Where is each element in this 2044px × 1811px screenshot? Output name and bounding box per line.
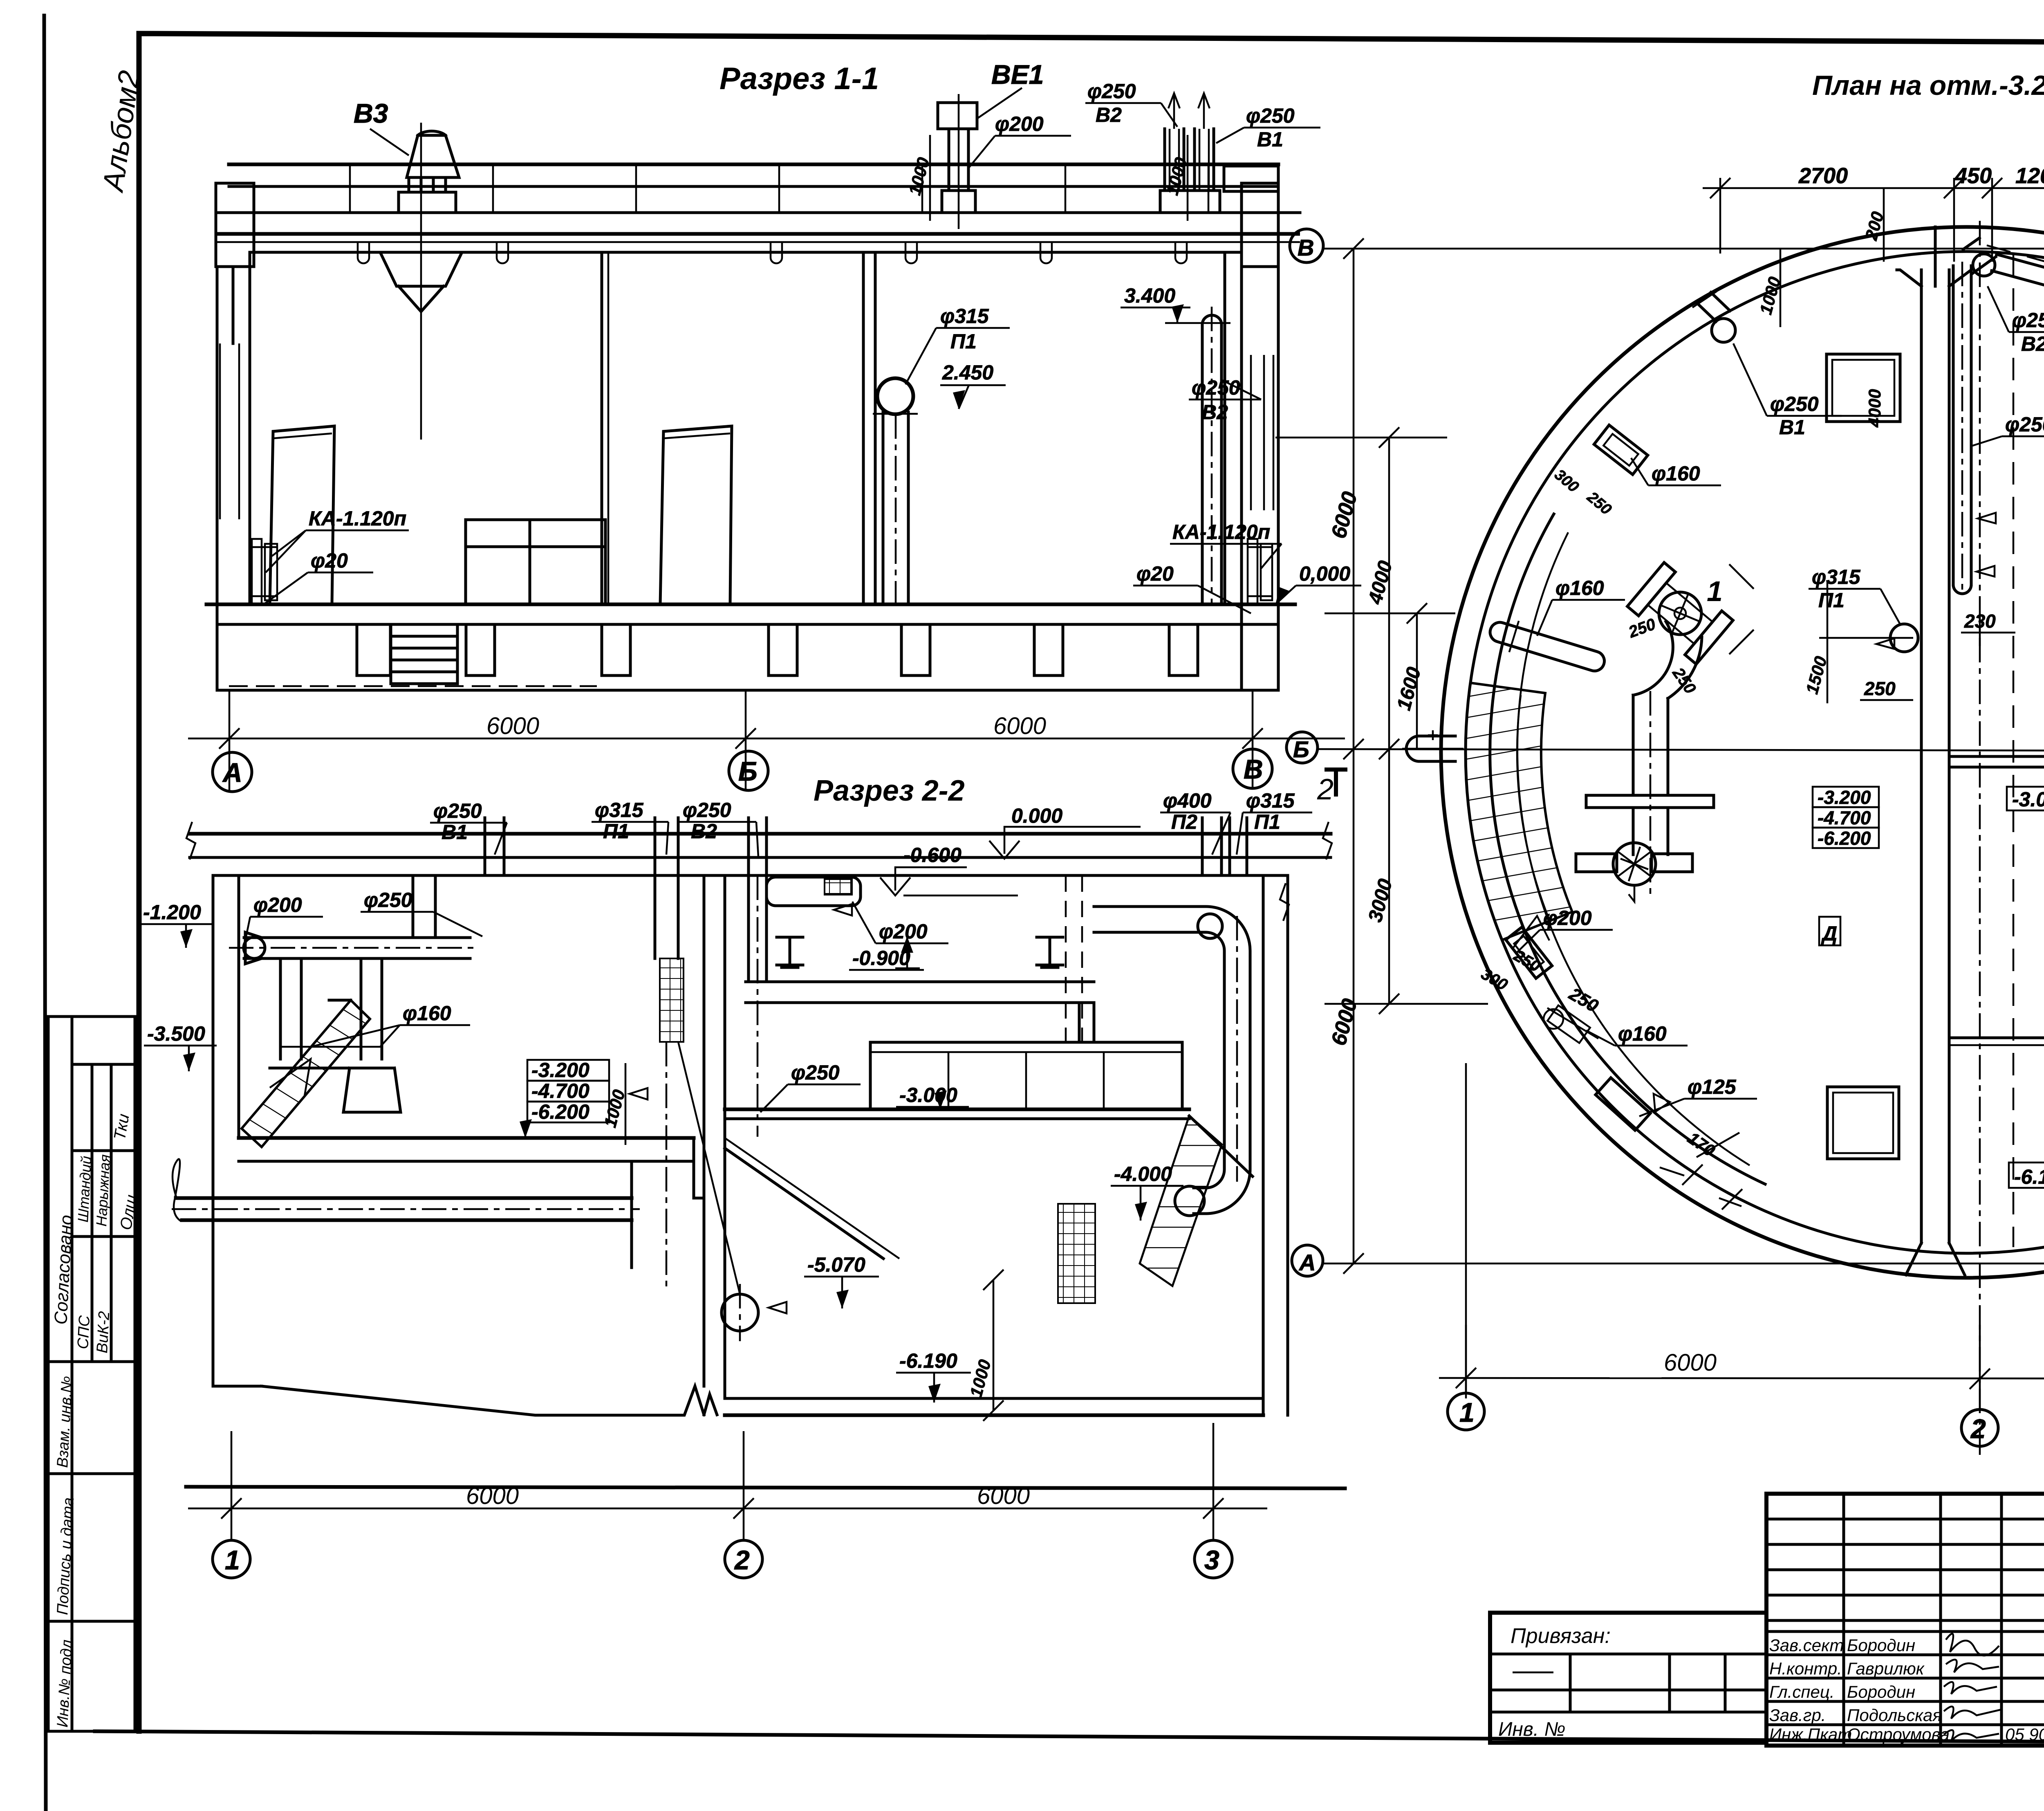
dim 1000 at floor step <box>625 1063 627 1145</box>
stamp rotated labels <box>51 1113 141 1728</box>
svg-text:Зав.сект: Зав.сект <box>1769 1636 1844 1655</box>
svg-text:В1: В1 <box>1779 416 1805 439</box>
door 2 <box>660 426 732 604</box>
section 2-2 left wall <box>212 875 215 1386</box>
svg-text:φ250: φ250 <box>683 799 731 821</box>
svg-text:6000: 6000 <box>1664 1349 1717 1376</box>
small stair below floor <box>391 624 457 684</box>
svg-text:1200: 1200 <box>2015 164 2044 188</box>
svg-text:-6.190: -6.190 <box>899 1349 957 1372</box>
svg-text:φ200: φ200 <box>879 920 928 943</box>
svg-text:φ200: φ200 <box>995 112 1044 135</box>
axis V line <box>1323 248 2044 250</box>
top dimension row 2700/450/1200 <box>1719 178 1721 254</box>
f250 duct from ceiling <box>412 875 415 938</box>
svg-text:φ315: φ315 <box>1812 566 1861 588</box>
svg-text:φ315: φ315 <box>595 799 644 821</box>
svg-text:φ250: φ250 <box>364 889 412 911</box>
V2 standpipe right <box>1202 315 1221 604</box>
axis circles A B V <box>213 752 252 792</box>
left box Privyazan <box>1490 1613 1766 1743</box>
brace diagonal <box>678 1042 740 1294</box>
svg-text:1: 1 <box>1707 575 1723 607</box>
svg-text:Разрез 2-2: Разрез 2-2 <box>814 774 965 807</box>
mid partition wall 1 <box>601 252 603 604</box>
svg-text:Инв. №: Инв. № <box>1498 1719 1565 1740</box>
svg-text:-3.200: -3.200 <box>1818 787 1871 808</box>
svg-text:4000: 4000 <box>1865 389 1884 428</box>
-0.600 device <box>766 877 861 906</box>
svg-text:450: 450 <box>1954 164 1992 188</box>
svg-text:КА-1.120п: КА-1.120п <box>1172 521 1270 543</box>
dim 1000 verticals <box>929 135 931 221</box>
signatures squiggles <box>1944 1634 2001 1741</box>
plan axis circles 1 2 3 <box>1448 1393 1484 1430</box>
svg-text:Остроумова: Остроумова <box>1847 1725 1950 1744</box>
svg-text:Привязан:: Привязан: <box>1511 1624 1611 1648</box>
svg-text:2: 2 <box>1317 773 1334 806</box>
floor -3.200 slab <box>239 1136 694 1140</box>
svg-text:0,000: 0,000 <box>1299 562 1350 585</box>
inner tank circle <box>1466 251 2044 1253</box>
svg-text:-5.070: -5.070 <box>807 1253 865 1276</box>
SE lower wall to central wall <box>1949 1037 2044 1039</box>
f160 sloped pipe W <box>1486 614 1609 680</box>
ceiling rib hooks <box>358 242 1187 263</box>
svg-text:φ250: φ250 <box>2012 309 2044 332</box>
svg-text:3.400: 3.400 <box>1124 284 1175 307</box>
left vertical dims of plan <box>1353 249 1355 1263</box>
S square opening <box>1827 1087 1899 1159</box>
svg-text:φ315: φ315 <box>1246 789 1295 812</box>
D boxes <box>1819 917 1840 945</box>
svg-text:Н.контр.: Н.контр. <box>1769 1659 1842 1678</box>
svg-text:3: 3 <box>1204 1545 1219 1575</box>
svg-text:-3.000: -3.000 <box>2012 788 2044 811</box>
svg-text:Подольская: Подольская <box>1847 1706 1942 1725</box>
svg-text:φ20: φ20 <box>1136 562 1174 585</box>
svg-text:φ160: φ160 <box>1652 462 1700 485</box>
axis A line <box>1321 1263 2044 1265</box>
svg-text:План на отм.-3.200;-4.700;-6.2: План на отм.-3.200;-4.700;-6.200;-6.190 <box>1812 70 2044 101</box>
svg-text:φ200: φ200 <box>253 893 302 916</box>
left stamp strip <box>48 1017 135 1731</box>
axis B line <box>1316 749 2044 752</box>
svg-text:6000: 6000 <box>486 713 539 739</box>
dim 1000 right <box>993 1280 995 1411</box>
tank on mezzanine <box>870 1042 1182 1109</box>
curved pipe from crusher down <box>1668 637 1702 698</box>
svg-text:0.000: 0.000 <box>1011 804 1062 827</box>
svg-text:-1.200: -1.200 <box>143 901 201 924</box>
svg-text:Штандий: Штандий <box>74 1156 94 1223</box>
svg-text:-3.500: -3.500 <box>147 1022 205 1045</box>
pit bottom left room <box>213 1385 262 1388</box>
inlet pipe on B axis left <box>1406 736 1455 761</box>
frame bottom line <box>95 1731 2044 1744</box>
svg-text:-0.900: -0.900 <box>852 947 910 969</box>
right parapet / overhang <box>1224 166 1278 191</box>
svg-text:Д: Д <box>1821 922 1837 945</box>
bottom dims 6000+6000 <box>188 1508 1267 1510</box>
svg-text:ВиК-2: ВиК-2 <box>94 1311 113 1354</box>
bottom dims of plan <box>1439 1378 2044 1379</box>
svg-text:6000: 6000 <box>993 713 1046 739</box>
svg-text:φ250: φ250 <box>433 799 482 822</box>
section 2-2 right room platform beams <box>746 981 1094 983</box>
svg-text:φ160: φ160 <box>1618 1022 1667 1045</box>
vertical vent pipes <box>279 958 282 1059</box>
crusher unit <box>1659 592 1701 635</box>
P1 riser pipe <box>877 378 913 414</box>
svg-text:1: 1 <box>225 1545 240 1575</box>
radiator KA-1.120p left <box>252 539 262 604</box>
radiator KA-1.120p right <box>1248 539 1257 604</box>
P2 duct dashed into tank <box>1065 875 1067 1042</box>
foundation piers <box>357 624 390 675</box>
diagonal f200 pipe <box>1997 254 2044 278</box>
svg-text:φ400: φ400 <box>1163 789 1212 812</box>
svg-text:6000: 6000 <box>466 1483 519 1509</box>
wall sleeve fitting NW <box>1594 425 1648 474</box>
bottom line of foundation <box>217 689 1278 692</box>
vent V3 funnel under ceiling <box>380 252 462 286</box>
NW hatch opening square <box>1827 354 1900 422</box>
mid partition wall 2 (axis B) <box>862 252 865 604</box>
level boxes <box>1813 787 1879 807</box>
grille ladder <box>1058 1204 1095 1303</box>
dimension line 6000+6000 <box>188 738 1345 740</box>
dashed line right of wall <box>2013 254 2015 1247</box>
svg-text:-4.700: -4.700 <box>531 1079 589 1102</box>
svg-text:В2: В2 <box>1096 103 1122 126</box>
svg-text:П1: П1 <box>1818 589 1845 612</box>
level 3.400 <box>1165 322 1230 324</box>
wall along B axis right <box>1949 755 2044 758</box>
P1 bottom suction <box>722 1294 758 1331</box>
svg-text:φ250: φ250 <box>1192 376 1240 399</box>
axis 1 partial vertical <box>1465 1063 1467 1398</box>
svg-text:Гл.спец.: Гл.спец. <box>1769 1682 1835 1701</box>
outer tank circle <box>1441 227 2044 1278</box>
svg-text:А: А <box>1298 1250 1316 1275</box>
svg-text:-6.200: -6.200 <box>531 1100 589 1123</box>
svg-text:2: 2 <box>1970 1414 1986 1444</box>
roof panel joints <box>350 164 1208 213</box>
P1 duct and grille left of wall <box>654 875 657 958</box>
middle wall axis 2 <box>703 875 706 1386</box>
svg-text:φ250: φ250 <box>1770 393 1819 415</box>
svg-text:-4.700: -4.700 <box>1818 807 1871 828</box>
NW B1 inlet circle <box>1712 319 1735 342</box>
svg-text:В2: В2 <box>2021 332 2044 355</box>
svg-text:СПС: СПС <box>74 1315 93 1349</box>
bottom floor right room <box>725 1397 1263 1400</box>
right duct with elbows <box>1094 907 1250 1214</box>
svg-text:В: В <box>1244 754 1263 784</box>
svg-text:П1: П1 <box>950 330 977 353</box>
sheet edge line <box>44 16 46 1811</box>
svg-text:Бородин: Бородин <box>1847 1636 1915 1655</box>
tall grid <box>1766 1494 2044 1746</box>
svg-text:П2: П2 <box>1171 810 1197 833</box>
svg-text:φ250: φ250 <box>1246 104 1295 127</box>
svg-text:φ200: φ200 <box>1543 907 1592 929</box>
svg-text:П1: П1 <box>603 820 629 843</box>
stair left hatched <box>242 1000 370 1147</box>
axis circles 1 2 3 <box>213 1540 250 1578</box>
right wall <box>1262 875 1265 1415</box>
svg-text:φ250: φ250 <box>2005 413 2044 436</box>
dims near P1 <box>1827 581 1829 703</box>
svg-text:Инж.Пкат: Инж.Пкат <box>1769 1725 1852 1744</box>
vent V3 mushroom <box>407 135 459 177</box>
svg-text:2700: 2700 <box>1798 164 1848 188</box>
duct fan circle <box>1198 914 1222 938</box>
svg-text:φ250: φ250 <box>1087 80 1136 103</box>
svg-text:05 90: 05 90 <box>2005 1725 2044 1744</box>
svg-text:-3.000: -3.000 <box>899 1084 957 1106</box>
svg-text:2.450: 2.450 <box>942 361 993 384</box>
-0.900 mark <box>906 936 908 968</box>
SW stair inner rail arc <box>1517 695 1549 920</box>
svg-text:КА-1.120п: КА-1.120п <box>309 507 406 530</box>
svg-text:φ315: φ315 <box>940 305 989 328</box>
right stair <box>1140 1116 1222 1286</box>
svg-text:φ160: φ160 <box>403 1002 451 1025</box>
svg-text:ВЕ1: ВЕ1 <box>991 59 1044 90</box>
svg-text:Гаврилюк: Гаврилюк <box>1847 1659 1925 1678</box>
svg-text:Разрез 1-1: Разрез 1-1 <box>719 61 879 96</box>
svg-text:В2: В2 <box>691 820 717 843</box>
svg-text:В3: В3 <box>354 98 388 128</box>
svg-text:-6.190: -6.190 <box>2014 1165 2044 1188</box>
svg-text:-6.200: -6.200 <box>1818 828 1871 849</box>
axis 2 vertical dash-dot <box>1979 221 1981 1456</box>
svg-text:Б: Б <box>738 756 758 786</box>
svg-text:φ250: φ250 <box>791 1061 840 1084</box>
SW f125 outlet <box>1596 1078 1650 1131</box>
vent VE1 <box>938 103 977 129</box>
risers through top slab <box>484 818 486 875</box>
elbow + fan circle top <box>1973 254 1995 276</box>
top slab of section 2-2 <box>190 832 1331 836</box>
central dividing wall <box>1920 270 1923 1243</box>
inner arc left (lower level wall) <box>1490 514 1765 1184</box>
left parapet <box>216 183 254 267</box>
svg-text:Зав.гр.: Зав.гр. <box>1769 1706 1826 1725</box>
svg-text:-3.200: -3.200 <box>531 1059 589 1082</box>
svg-text:φ125: φ125 <box>1688 1075 1737 1098</box>
section 1-1 floor slab <box>206 603 1295 606</box>
svg-text:В2: В2 <box>1202 401 1228 424</box>
cabinet <box>466 520 605 604</box>
SW curved stair <box>1466 683 1572 940</box>
svg-text:В1: В1 <box>442 821 468 844</box>
mezzanine floor <box>725 1108 1189 1111</box>
svg-text:В: В <box>1298 235 1314 260</box>
svg-text:П1: П1 <box>1254 810 1280 833</box>
rotated dims 1000 / 200 <box>1780 249 1782 327</box>
big intake pipe <box>176 1196 632 1200</box>
section bottom foundation <box>186 1487 1345 1488</box>
B2 riser down <box>747 875 750 982</box>
I-beam symbols <box>777 937 1063 967</box>
crusher2 wheel <box>1613 843 1656 885</box>
section 1-1 right wall <box>1224 252 1226 604</box>
svg-text:250: 250 <box>1864 678 1896 699</box>
svg-text:1: 1 <box>1459 1397 1475 1427</box>
svg-text:Б: Б <box>1293 736 1309 762</box>
svg-text:-0.600: -0.600 <box>903 844 961 866</box>
svg-text:φ20: φ20 <box>311 549 348 572</box>
levels box -3.200 -4.700 -6.200 <box>527 1060 609 1081</box>
P1 pipe circle center <box>1890 624 1918 652</box>
door 1 <box>270 426 334 604</box>
top vent V2 pipe along wall <box>1952 266 1955 585</box>
svg-text:2: 2 <box>734 1545 750 1575</box>
svg-text:-4.000: -4.000 <box>1114 1162 1172 1185</box>
svg-text:6000: 6000 <box>977 1483 1030 1509</box>
SW wall fittings and labels <box>1506 927 1552 978</box>
f200 horizontal vent pipe <box>244 936 470 939</box>
flange bars <box>1586 795 1714 808</box>
section 1-1 left wall <box>216 267 219 690</box>
svg-text:В1: В1 <box>1257 128 1283 151</box>
vents V2/V1 stacks <box>1163 129 1166 191</box>
svg-text:А: А <box>222 757 242 788</box>
roof slab lines <box>229 163 1278 166</box>
svg-text:Бородин: Бородин <box>1847 1682 1915 1701</box>
svg-text:φ160: φ160 <box>1555 577 1604 599</box>
